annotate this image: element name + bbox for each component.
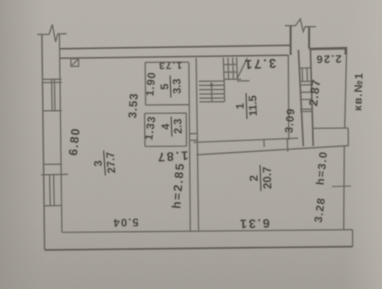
- room label 1/11.5: [234, 93, 260, 120]
- wire: bottom wall upper line: [62, 230, 353, 233]
- stub wall right line: [308, 27, 310, 49]
- duct column right line: [310, 49, 313, 146]
- duct window bottom cross: [299, 80, 311, 82]
- stair break diagonal 1: [237, 58, 248, 79]
- stair arrow head: [210, 82, 214, 87]
- stair lower flight top: [199, 80, 224, 82]
- break symbol top-left: [37, 25, 66, 42]
- window W2 top cross: [44, 163, 62, 165]
- stair lower flight treads: [199, 85, 225, 98]
- stair under line: [237, 80, 250, 82]
- room label 3/27.7: [92, 150, 118, 177]
- wire: top wall lower line: [60, 55, 289, 58]
- duct lower tick pair: [300, 109, 312, 112]
- vent symbol: [71, 59, 79, 66]
- wall B stairs left / room2 wall right line: [196, 58, 198, 232]
- wire: right outer wall: [345, 49, 347, 128]
- stair upper flight rails: [223, 64, 241, 79]
- window W2 panes: [50, 175, 55, 206]
- stair lower flight right edge: [223, 81, 225, 102]
- dimension tick at h=3.0: [332, 185, 351, 188]
- wire: left wall inner line: [59, 34, 62, 232]
- door ticks in wall A/B: [190, 134, 198, 141]
- stair arrow shaft: [211, 84, 213, 101]
- wire: long lower line of room1/room2 wall: [196, 146, 348, 155]
- wall A between closets and stairs: [189, 63, 190, 232]
- window W1 panes: [52, 79, 55, 111]
- duct window top cross: [299, 67, 311, 69]
- step rect top: [313, 127, 348, 129]
- window W2 bottom cross: [44, 205, 62, 207]
- door jamb ticks in room1 wall: [264, 139, 288, 152]
- duct window panes: [302, 68, 307, 81]
- room1 right wall: [287, 55, 290, 140]
- wire: left wall outer line: [42, 34, 45, 249]
- step rect right: [347, 128, 349, 146]
- wire: top wall upper line: [59, 45, 291, 49]
- stair landing right edge: [222, 58, 225, 81]
- wire: bottom wall lower line: [45, 247, 353, 250]
- room label 2/20.7: [248, 165, 274, 192]
- stair lower flight bottom: [199, 101, 224, 103]
- room2 right wall: [343, 146, 346, 230]
- wire: bottom wall right cap: [352, 230, 354, 247]
- stair upper flight treads: [228, 58, 237, 80]
- break symbol top-right: [285, 19, 316, 32]
- room label 4/2.3: [160, 116, 185, 137]
- room 4 box: [145, 113, 187, 147]
- room 5 box: [145, 62, 189, 105]
- room label 5/3.3: [159, 75, 184, 98]
- duct column left line: [298, 50, 303, 146]
- window W2 sill: [41, 173, 68, 176]
- wire: room1/room2 wall upper line: [193, 138, 298, 142]
- duct ladder ticks: [299, 85, 311, 100]
- wire: top-right horizontal boundary: [309, 48, 346, 54]
- window W1 bottom cross: [43, 110, 62, 112]
- stub wall left line: [290, 26, 292, 55]
- window W1 top cross: [42, 79, 62, 82]
